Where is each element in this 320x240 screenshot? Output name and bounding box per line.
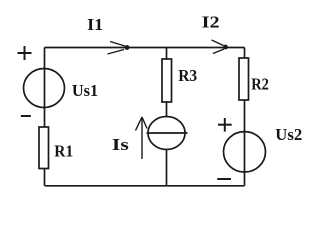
resistor R3 <box>162 59 172 102</box>
voltage source Us2 <box>224 132 266 172</box>
svg-text:Us2: Us2 <box>275 125 302 144</box>
resistor R2 <box>239 58 249 100</box>
plus sign of Us1 <box>18 46 32 60</box>
svg-text:Us1: Us1 <box>72 81 98 100</box>
current source Is <box>148 117 185 150</box>
svg-text:R2: R2 <box>251 74 269 93</box>
voltage source Us1 <box>24 69 65 108</box>
minus sign of Us1 <box>21 115 31 117</box>
minus sign of Us2 <box>217 178 231 180</box>
svg-text:R3: R3 <box>178 66 197 85</box>
wire right branch <box>244 48 246 186</box>
resistor R1 <box>39 127 49 169</box>
svg-text:I1: I1 <box>87 15 103 34</box>
wire middle branch <box>166 48 168 186</box>
wire bottom <box>45 185 245 187</box>
plus sign of Us2 <box>218 118 232 132</box>
wire top: node A to node B <box>45 47 245 49</box>
svg-text:Is: Is <box>112 135 129 154</box>
wire left branch <box>44 48 46 186</box>
arrow of current source Is <box>136 117 148 159</box>
arrow I1 on top wire <box>108 42 126 55</box>
svg-text:R1: R1 <box>54 142 73 161</box>
svg-text:I2: I2 <box>202 13 220 32</box>
arrow I2 on top wire <box>212 40 225 54</box>
